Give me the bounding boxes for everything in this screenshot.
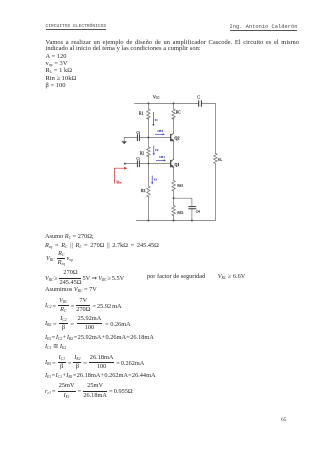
svg-text:RE1: RE1	[177, 183, 183, 187]
svg-text:RE2: RE2	[177, 210, 183, 214]
svg-text:Rin: Rin	[116, 180, 121, 184]
svg-text:RL: RL	[218, 158, 222, 162]
svg-text:Q2: Q2	[174, 135, 179, 140]
svg-text:R2: R2	[140, 151, 144, 155]
svg-text:Q1: Q1	[174, 162, 179, 167]
svg-text:C: C	[197, 95, 200, 99]
svg-text:I3: I3	[154, 177, 158, 181]
svg-text:IB2: IB2	[157, 129, 163, 133]
svg-text:RC: RC	[176, 110, 181, 114]
svg-text:C2: C2	[136, 130, 140, 134]
svg-text:R3: R3	[141, 189, 145, 193]
svg-text:I2: I2	[155, 148, 159, 152]
svg-text:C4: C4	[196, 210, 200, 214]
svg-text:IB1: IB1	[159, 155, 165, 159]
svg-text:I1: I1	[155, 118, 159, 122]
svg-text:R1: R1	[139, 112, 143, 116]
svg-text:VCC: VCC	[153, 94, 160, 99]
svg-text:C1: C1	[136, 157, 140, 161]
